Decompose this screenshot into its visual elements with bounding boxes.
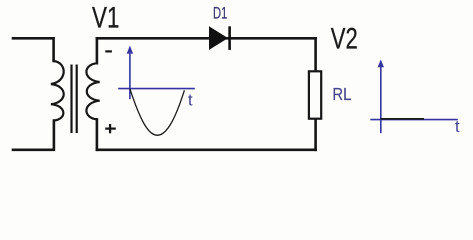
svg-text:D1: D1	[213, 4, 227, 23]
svg-text:t: t	[455, 118, 460, 136]
V2 graph vertical axis arrowhead	[378, 60, 384, 68]
wire right branch (load)	[314, 38, 317, 150]
wire primary bottom lead	[13, 121, 54, 150]
wire secondary bottom lead	[96, 119, 99, 149]
V2 graph vertical axis	[380, 66, 382, 133]
transformer T1 core	[72, 65, 77, 134]
wire primary top lead	[13, 38, 54, 61]
V2 output zero-level trace (blocked half-cycle)	[381, 118, 425, 120]
wire top net (secondary to diode to load)	[97, 37, 316, 40]
V1 graph vertical axis	[129, 53, 131, 100]
svg-text:RL: RL	[332, 84, 351, 104]
V1 graph vertical axis arrowhead	[127, 46, 133, 54]
diode D1 anode triangle	[209, 26, 228, 50]
wire bottom return net	[97, 149, 316, 152]
polarity minus sign	[105, 50, 112, 52]
V1 input waveform negative half-cycle	[130, 89, 185, 136]
V2 graph time axis	[370, 119, 458, 121]
svg-text:V1: V1	[92, 2, 119, 35]
wire secondary top lead	[96, 38, 99, 63]
resistor RL body	[309, 71, 321, 118]
svg-text:V2: V2	[331, 23, 358, 56]
diode D1 cathode bar	[228, 26, 231, 50]
transformer T1 primary winding	[51, 61, 64, 121]
transformer T1 secondary winding	[86, 63, 99, 119]
V1 graph time axis	[118, 88, 195, 90]
polarity plus sign	[105, 124, 116, 133]
svg-text:t: t	[188, 92, 193, 110]
